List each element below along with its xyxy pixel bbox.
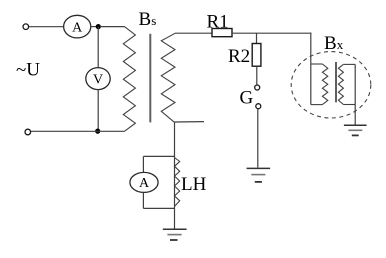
svg-text:A: A — [72, 20, 83, 35]
ammeter A (input) — [64, 15, 91, 38]
node junction top — [96, 24, 101, 29]
svg-text:G: G — [240, 88, 254, 109]
svg-text:~U: ~U — [16, 60, 40, 81]
wire — [29, 26, 64, 28]
wire top to R1 — [175, 32, 212, 34]
transformer Bx primary winding — [322, 64, 327, 105]
voltmeter V — [86, 68, 110, 90]
transformer Bx primary lead top — [311, 63, 323, 65]
transformer Bx secondary lead bottom — [343, 104, 355, 106]
spark gap electrode bottom — [256, 104, 261, 109]
svg-text:A: A — [139, 176, 150, 191]
resistor R1 — [212, 29, 232, 37]
ground under Bx — [344, 125, 367, 135]
wire bracket left lower — [142, 192, 144, 208]
dashed enclosure Bx — [291, 52, 371, 118]
resistor R2 — [252, 44, 261, 67]
wire stub right — [175, 121, 205, 123]
wire — [100, 26, 124, 28]
inductor LH winding — [175, 158, 180, 207]
ground under LH — [163, 229, 187, 240]
spark gap electrode top — [255, 85, 260, 90]
transformer Bs primary winding — [123, 27, 135, 132]
wire right vertical to Bx — [310, 33, 312, 105]
terminal input top — [23, 24, 29, 30]
wire voltmeter top — [97, 27, 99, 68]
svg-text:LH: LH — [181, 174, 207, 195]
transformer Bs core — [149, 34, 151, 123]
svg-text:R2: R2 — [228, 46, 250, 67]
wire bottom — [31, 130, 125, 132]
wire R1 to corner — [232, 32, 311, 34]
wire bracket bottom — [143, 207, 174, 209]
ammeter A (LH branch) — [130, 172, 158, 192]
transformer Bx secondary winding — [338, 64, 343, 104]
wire R2 to gap — [256, 66, 258, 85]
transformer Bx primary lead bottom — [311, 104, 323, 106]
wire stub to R2 — [256, 33, 258, 43]
node junction bottom — [95, 129, 100, 134]
wire — [91, 26, 96, 28]
svg-text:V: V — [93, 72, 103, 87]
transformer Bs secondary winding — [161, 33, 175, 122]
transformer Bx core — [335, 62, 337, 102]
wire gap to ground — [257, 109, 259, 168]
wire voltmeter bottom — [97, 90, 99, 132]
transformer Bx secondary lead top — [343, 63, 355, 65]
svg-text:Bs: Bs — [139, 9, 157, 30]
wire Bx to ground — [354, 64, 356, 124]
svg-text:Bx: Bx — [324, 33, 344, 54]
ground under gap — [247, 168, 271, 182]
wire bracket top — [143, 155, 174, 157]
wire secondary bottom down — [174, 122, 176, 228]
wire bracket left upper — [142, 156, 144, 172]
terminal input bottom — [25, 129, 31, 135]
